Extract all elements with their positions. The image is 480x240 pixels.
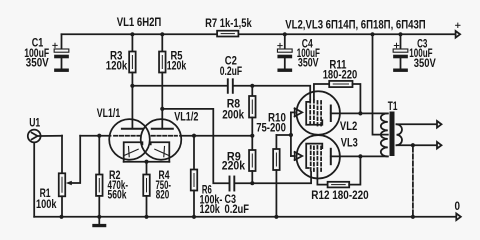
VL1/2 cathode — [151, 142, 170, 162]
resistor R2 — [96, 136, 103, 217]
wire VL1/2 anode to C3 — [162, 109, 228, 183]
terminal plus — [456, 31, 461, 38]
VL2 cathode bracket — [306, 102, 322, 125]
wire C2 to VL2 grid — [234, 86, 310, 100]
VL1 grid dashes — [114, 135, 140, 137]
terminal out bottom — [437, 142, 442, 149]
VL2 cathode — [291, 108, 302, 116]
ground — [92, 217, 106, 227]
tube VL3 envelope — [297, 135, 340, 178]
wire cathode box bottom — [124, 161, 170, 163]
svg-text:R7 1k-1,5k: R7 1k-1,5k — [205, 17, 252, 30]
svg-text:0.2uF: 0.2uF — [220, 65, 242, 78]
resistor R10 — [273, 135, 280, 217]
terminal out top — [437, 121, 442, 128]
VL1/1 cathode — [124, 142, 143, 162]
resistor R8 — [249, 86, 256, 136]
capacitor C3 0.2uF — [230, 177, 235, 191]
transformer T1 — [381, 112, 402, 157]
VL1/2 anode — [152, 128, 173, 130]
resistor R11 — [314, 81, 361, 114]
svg-text:U1: U1 — [29, 116, 40, 129]
capacitor C3 100uF — [393, 34, 408, 72]
resistor R5 — [159, 34, 166, 128]
potentiometer R1 — [59, 136, 80, 217]
plus sign top right — [456, 23, 460, 27]
VL1/1 anode — [122, 128, 143, 130]
resistor R3 — [129, 34, 136, 128]
VL3 cathode — [291, 152, 302, 160]
svg-text:75-200: 75-200 — [256, 122, 286, 135]
resistor R9 — [249, 136, 256, 184]
resistor R7 — [217, 31, 238, 37]
resistor R4 — [143, 162, 150, 217]
svg-text:R12 180-220: R12 180-220 — [311, 189, 368, 202]
svg-text:350V: 350V — [414, 57, 436, 70]
wire secondary top — [397, 123, 438, 125]
terminal zero — [456, 214, 461, 221]
wire B+ to T1 tap — [373, 34, 388, 134]
svg-text:200k: 200k — [222, 108, 244, 121]
VL3 cathode bracket — [306, 144, 322, 168]
svg-text:100k: 100k — [36, 198, 57, 211]
svg-text:820: 820 — [156, 188, 170, 201]
svg-text:T1: T1 — [388, 100, 398, 113]
svg-text:120k: 120k — [167, 60, 187, 73]
wire VL1/1 anode to C2 — [132, 85, 227, 87]
wire R1 wiper to VL1/1 grid — [80, 135, 110, 137]
resistor R6 — [191, 136, 198, 217]
svg-text:0.2uF: 0.2uF — [225, 203, 250, 216]
wire bottom rail — [34, 216, 456, 218]
svg-text:350V: 350V — [26, 57, 49, 70]
svg-text:VL2: VL2 — [340, 120, 357, 133]
svg-text:VL2,VL3 6П14П, 6П18П, 6П43П: VL2,VL3 6П14П, 6П18П, 6П43П — [285, 18, 426, 31]
resistor R12 — [317, 156, 360, 187]
wire VL2 anode to T1 — [331, 112, 388, 114]
tube VL1 envelope — [109, 119, 181, 160]
wire dashed secondary to ground rail — [412, 147, 414, 217]
svg-text:120k: 120k — [106, 60, 128, 73]
wire VL3 anode to T1 — [331, 155, 388, 157]
capacitor C2 — [228, 79, 233, 93]
wire C3 to VL3 grid — [235, 172, 311, 183]
wire top rail left of R7 — [62, 33, 218, 35]
wire VL2 VL3 cathodes to R10 — [290, 112, 292, 156]
tube VL2 envelope — [297, 91, 340, 134]
svg-text:350V: 350V — [298, 57, 319, 70]
svg-text:220k: 220k — [222, 160, 246, 173]
svg-text:VL1 6Н2П: VL1 6Н2П — [117, 16, 162, 29]
VL1/1 heater — [124, 149, 138, 155]
VL3 grids — [311, 146, 321, 172]
VL1/2 heater — [155, 149, 169, 155]
VL2 anode — [330, 106, 332, 122]
svg-text:120k: 120k — [200, 203, 221, 216]
wire VL1/2 grid line — [180, 135, 252, 137]
VL2 grids — [310, 100, 321, 127]
svg-text:560k: 560k — [108, 189, 127, 202]
svg-text:VL1/2: VL1/2 — [174, 111, 198, 124]
wire top rail right of R7 — [238, 33, 455, 35]
capacitor C4 — [277, 34, 292, 72]
capacitor C1 — [53, 34, 69, 72]
input U1 — [28, 130, 62, 217]
svg-text:0: 0 — [455, 200, 461, 213]
VL3 anode — [330, 149, 332, 164]
svg-text:180-220: 180-220 — [323, 69, 358, 82]
svg-text:VL3: VL3 — [341, 136, 358, 149]
wire U1 down to R1 — [61, 136, 63, 174]
svg-text:VL1/1: VL1/1 — [97, 107, 121, 120]
wire secondary bottom — [397, 144, 438, 146]
